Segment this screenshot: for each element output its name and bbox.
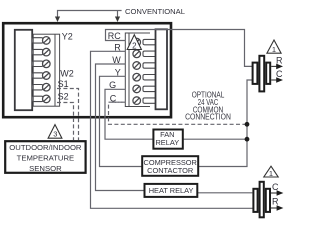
- svg-text:R: R: [276, 55, 283, 65]
- svg-text:W2: W2: [60, 68, 74, 78]
- svg-text:OUTDOOR/INDOOR: OUTDOOR/INDOOR: [9, 143, 82, 152]
- svg-text:SENSOR: SENSOR: [29, 164, 62, 173]
- svg-text:Y2: Y2: [62, 32, 73, 42]
- svg-text:S2: S2: [58, 92, 69, 102]
- svg-text:RELAY: RELAY: [155, 138, 179, 147]
- svg-text:HEAT RELAY: HEAT RELAY: [149, 186, 194, 195]
- svg-text:RC: RC: [108, 31, 121, 41]
- svg-text:CONNECTION: CONNECTION: [185, 112, 231, 122]
- svg-text:1: 1: [272, 45, 276, 54]
- svg-text:CONVENTIONAL: CONVENTIONAL: [125, 7, 185, 16]
- svg-text:R: R: [272, 197, 279, 207]
- svg-text:C: C: [272, 182, 279, 192]
- svg-text:3: 3: [53, 129, 57, 138]
- svg-text:G: G: [109, 80, 116, 90]
- svg-text:1: 1: [269, 169, 273, 178]
- svg-text:TEMPERATURE: TEMPERATURE: [17, 154, 75, 163]
- svg-text:CONTACTOR: CONTACTOR: [147, 166, 193, 175]
- svg-text:2: 2: [132, 41, 137, 50]
- svg-text:C: C: [276, 69, 283, 79]
- svg-text:S1: S1: [58, 79, 69, 89]
